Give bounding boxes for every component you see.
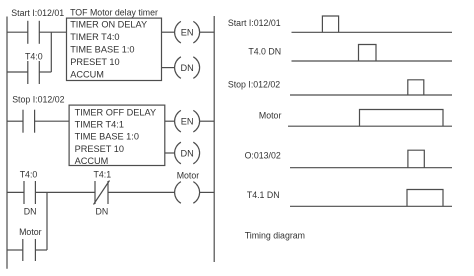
svg-text:ACCUM: ACCUM [70,70,104,80]
wire rung3 right [108,191,175,193]
wire rung1 left [7,31,28,33]
timing row5 pulse O:013/02 [408,150,424,168]
timing row4 pulse Motor [360,110,444,127]
timing row1 baseline [292,31,453,33]
svg-text:T4.0 DN: T4.0 DN [248,46,281,56]
wire box2 to DN coil [165,152,175,154]
contact T4:0/DN [24,181,35,204]
wire motor coil to rail [200,191,215,193]
wire rung3 middle [35,191,95,193]
timing row5 baseline [290,167,452,169]
svg-text:T4:1: T4:1 [94,170,112,180]
svg-text:TOF Motor delay timer: TOF Motor delay timer [70,8,158,18]
timing row2 pulse T4.0 DN [359,45,377,62]
svg-text:TIMER T4:1: TIMER T4:1 [75,120,124,130]
timing row2 baseline [292,60,453,62]
svg-text:TIMER OFF DELAY: TIMER OFF DELAY [75,108,157,118]
timing row6 baseline [290,205,452,207]
timing row1 pulse Start [322,16,338,32]
svg-text:Stop I:012/02: Stop I:012/02 [12,95,64,105]
coil EN timer2 [175,110,200,132]
svg-text:ACCUM: ACCUM [75,156,109,166]
coil DN timer2 [175,142,200,164]
svg-text:TIME BASE 1:0: TIME BASE 1:0 [75,132,139,142]
wire branch2 right [35,249,47,251]
svg-text:DN: DN [180,63,193,73]
left power rail [6,17,8,269]
svg-text:PRESET 10: PRESET 10 [75,144,124,154]
svg-text:EN: EN [181,28,194,38]
coil DN timer1 [175,57,200,79]
timing row6 pulse T4.1 DN [407,190,443,207]
contact Motor (seal-in) [23,239,36,261]
svg-text:T4:0: T4:0 [20,170,38,180]
svg-text:Start I:012/01: Start I:012/01 [228,18,281,28]
contact Stop I:012/02 [23,110,35,133]
svg-text:Stop I:012/02: Stop I:012/02 [228,80,280,90]
coil EN timer1 [175,21,200,43]
svg-text:DN: DN [96,206,109,216]
wire box1 to EN coil [162,31,175,33]
svg-text:Timing diagram: Timing diagram [245,231,305,241]
right power rail [213,16,215,262]
wire rung3 left [7,191,24,193]
wire branch1 right [39,71,51,73]
svg-text:DN: DN [24,206,37,216]
wire box2 to EN coil [165,120,175,122]
wire branch1 left [7,71,28,73]
svg-text:TIMER ON DELAY: TIMER ON DELAY [70,20,147,30]
svg-text:Motor: Motor [19,227,42,237]
svg-text:TIME BASE 1:0: TIME BASE 1:0 [70,45,134,55]
contact Start I:012/01 [28,21,40,44]
svg-text:Motor: Motor [259,111,282,121]
svg-text:DN: DN [180,148,193,158]
timer box T4:0 [67,18,162,80]
wire rung2 left [7,120,23,122]
timing row3 baseline [290,94,452,96]
timing row4 baseline [288,125,452,127]
wire rung1 right to timer box [39,31,66,33]
svg-text:TIMER T4:0: TIMER T4:0 [70,32,119,42]
timing row3 pulse Stop [408,80,424,95]
wire rung2 right to timer box [35,120,70,122]
svg-text:T4.1 DN: T4.1 DN [247,190,280,200]
svg-text:Motor: Motor [177,171,200,181]
contact T4:1/DN normally closed [94,181,110,205]
svg-text:EN: EN [181,117,194,127]
timer box T4:1 [69,105,165,165]
wire branch2 left [7,249,23,251]
wire EN2 to rail [200,120,215,122]
svg-text:T4:0: T4:0 [25,51,43,61]
svg-text:Start I:012/01: Start I:012/01 [11,8,64,18]
coil Motor output [175,182,200,204]
wire box1 to DN coil [162,67,175,69]
wire branch junction vertical [50,32,52,72]
wire EN1 to rail [200,31,215,33]
svg-text:O:013/02: O:013/02 [245,150,281,160]
wire branch2 vertical [46,192,48,250]
contact T4:0 (seal-in) [28,61,40,84]
svg-text:PRESET 10: PRESET 10 [70,57,119,67]
